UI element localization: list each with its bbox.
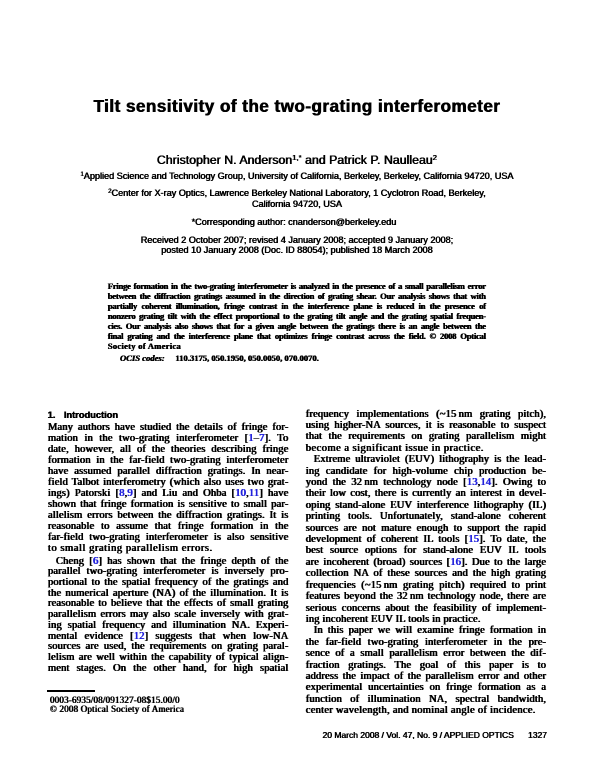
received line 1 (0, 236, 594, 245)
affiliation 1 (0, 172, 594, 181)
left column paragraph 2 (48, 557, 289, 675)
article title (0, 98, 594, 115)
affiliation 2 line 2 (0, 200, 594, 209)
section heading (48, 411, 289, 420)
page footer (306, 731, 547, 740)
footnote (50, 696, 290, 713)
OCIS codes (120, 353, 319, 363)
received line 2 (0, 246, 594, 255)
footnote rule (47, 690, 95, 691)
right column (306, 409, 546, 717)
abstract (108, 281, 486, 351)
authors (0, 154, 594, 166)
affiliation 2 line 1 (0, 189, 594, 198)
corresponding author (0, 218, 591, 227)
left column paragraph 1 (48, 422, 289, 554)
